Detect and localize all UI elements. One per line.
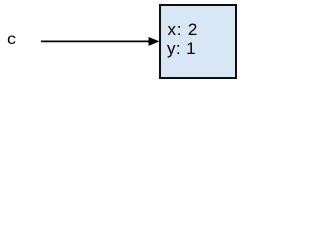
attribute y: 1 (167, 39, 196, 59)
attribute x: 2 (168, 20, 199, 40)
wire: arrow from c to object box (0, 0, 242, 83)
variable label c (7, 30, 16, 50)
object box (attributes container) (159, 4, 237, 79)
